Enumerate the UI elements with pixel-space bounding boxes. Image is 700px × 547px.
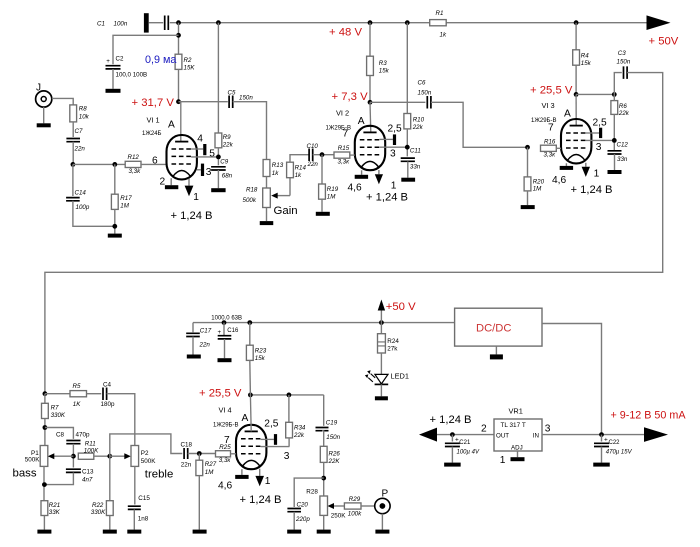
svg-text:500K: 500K bbox=[141, 458, 157, 465]
resistor R25 bbox=[216, 451, 231, 457]
wire R27 to ground bbox=[198, 476, 200, 530]
wire to +50V arrow bbox=[380, 311, 382, 323]
capacitor C9 68n bbox=[211, 167, 226, 170]
svg-text:C12: C12 bbox=[617, 141, 629, 148]
wire C22 to ground bbox=[601, 447, 603, 463]
ground below jack J bbox=[37, 123, 51, 127]
junction pin5/R9/C9 bbox=[216, 155, 221, 160]
svg-text:+ 1,24 В: + 1,24 В bbox=[171, 210, 213, 222]
svg-text:Gain: Gain bbox=[274, 205, 298, 217]
wire R6 to C12 bbox=[613, 114, 615, 150]
capacitor C7 22n bbox=[66, 139, 80, 142]
svg-text:C15: C15 bbox=[138, 495, 150, 502]
svg-text:C20: C20 bbox=[297, 502, 309, 509]
wire R16 to VI3 grid bbox=[556, 147, 561, 149]
svg-text:R28: R28 bbox=[306, 488, 318, 495]
wire rail to R4 bbox=[575, 23, 577, 50]
svg-text:C7: C7 bbox=[75, 128, 83, 135]
resistor R26 bbox=[320, 446, 327, 462]
DC/DC converter box bbox=[455, 308, 542, 346]
ground below R22 bbox=[103, 530, 117, 534]
svg-text:C22: C22 bbox=[609, 440, 621, 446]
svg-text:7: 7 bbox=[343, 128, 349, 139]
wiper arrow R18 bbox=[276, 195, 290, 197]
capacitor C2 100.0 100V electrolytic bbox=[106, 66, 121, 69]
junction R17 top bbox=[112, 162, 117, 167]
svg-text:22k: 22k bbox=[293, 432, 305, 439]
capacitor C10 22n bbox=[309, 148, 313, 161]
svg-text:C6: C6 bbox=[418, 79, 426, 86]
wire treble network to C18 bbox=[110, 434, 183, 456]
wire R18 to ground bbox=[266, 208, 268, 222]
resistor R19 bbox=[319, 184, 326, 199]
wire R12 to VI1 pin 6 bbox=[141, 163, 167, 165]
junction pin3 VI3 / R6 / C12 bbox=[612, 138, 617, 143]
svg-text:3: 3 bbox=[545, 423, 551, 434]
wire C2 to ground bbox=[112, 69, 114, 89]
svg-text:27k: 27k bbox=[387, 346, 398, 353]
svg-text:C9: C9 bbox=[220, 158, 228, 165]
wire LED1 to ground bbox=[380, 384, 382, 396]
wire C20 to ground bbox=[293, 512, 295, 530]
svg-text:R29: R29 bbox=[349, 496, 361, 503]
wire anode node VI2 to C6 bbox=[370, 101, 425, 103]
wire +48V rail right part bbox=[446, 22, 646, 24]
wire anode node to C5 bbox=[179, 101, 228, 103]
wire C9 to ground bbox=[217, 170, 219, 188]
svg-text:2,5: 2,5 bbox=[388, 124, 402, 135]
svg-text:OUT: OUT bbox=[496, 432, 509, 439]
ground below VI4 cathode bbox=[235, 475, 248, 479]
pin bar 2,5 of VI3 bbox=[599, 128, 602, 138]
svg-text:R10: R10 bbox=[413, 117, 425, 124]
junction top rail / R9 branch bbox=[216, 20, 221, 25]
svg-text:R24: R24 bbox=[387, 338, 399, 345]
ground below C21 bbox=[444, 463, 461, 467]
wire C16 to ground bbox=[224, 339, 226, 358]
svg-text:R21: R21 bbox=[49, 502, 60, 509]
svg-text:470µ 15V: 470µ 15V bbox=[606, 450, 633, 456]
wire R5 to C4 bbox=[87, 393, 102, 395]
wire P2 to C15 bbox=[134, 466, 136, 504]
svg-text:15k: 15k bbox=[581, 60, 592, 67]
svg-text:C8: C8 bbox=[56, 432, 65, 439]
arrow +9-12V input bbox=[644, 427, 668, 442]
ground below R18 bbox=[260, 221, 274, 225]
wire C6 to grid network VI3 bbox=[431, 102, 528, 147]
wire to R34 bbox=[288, 395, 290, 422]
svg-text:330K: 330K bbox=[91, 509, 106, 516]
svg-text:3,3к: 3,3к bbox=[219, 457, 232, 464]
svg-text:A: A bbox=[168, 120, 175, 131]
svg-text:6: 6 bbox=[152, 156, 158, 167]
ground below R28 bbox=[317, 530, 331, 534]
input jack J bbox=[36, 91, 52, 107]
ground below C17 bbox=[187, 355, 201, 359]
arrow pin 1 filament VI3 bbox=[582, 167, 590, 177]
svg-text:VI 3: VI 3 bbox=[542, 101, 555, 110]
wire C3 to tone stack (long feedback rail) bbox=[45, 73, 663, 394]
svg-text:C17: C17 bbox=[200, 328, 212, 335]
wire to R17 bbox=[114, 164, 116, 194]
wire R11 to P2 wiper line bbox=[94, 455, 110, 457]
junction C10/R19/R15 bbox=[320, 152, 325, 157]
wire R8 to C7 bbox=[72, 122, 74, 137]
svg-text:3: 3 bbox=[284, 451, 290, 462]
wire junction to R24 bbox=[380, 323, 382, 334]
svg-text:2,5: 2,5 bbox=[264, 418, 278, 429]
potentiometer P2 500K (treble) bbox=[131, 446, 139, 467]
resistor R4 bbox=[573, 50, 580, 65]
wire jack to R8 bbox=[52, 98, 73, 105]
svg-text:1M: 1M bbox=[327, 194, 336, 201]
junction C18 / R27 / R25 bbox=[197, 451, 202, 456]
resistor R15 bbox=[334, 152, 350, 158]
wire to R5 bbox=[45, 393, 70, 395]
output jack P bbox=[375, 498, 390, 513]
wire jack P to ground bbox=[381, 514, 383, 530]
arrow pin 1 filament VI2 bbox=[375, 174, 383, 184]
resistor R11 bbox=[78, 453, 94, 459]
svg-text:R8: R8 bbox=[79, 106, 87, 113]
wire +25,5V node to C19 bbox=[323, 395, 325, 426]
junction C22 / DC-DC output bbox=[599, 432, 604, 437]
wire R2 to anode node VI1 bbox=[178, 69, 180, 101]
capacitor C1 100n bbox=[165, 15, 169, 30]
wire C18 to R25 bbox=[188, 453, 216, 455]
svg-text:C1: C1 bbox=[97, 21, 105, 28]
svg-text:+: + bbox=[106, 58, 110, 65]
pin bar 3 of VI1 bbox=[201, 164, 204, 176]
svg-text:C5: C5 bbox=[228, 90, 236, 97]
svg-text:C3: C3 bbox=[618, 50, 626, 57]
svg-text:100µ 4V: 100µ 4V bbox=[457, 450, 480, 456]
svg-text:1k: 1k bbox=[272, 170, 279, 177]
junction tone stack top bbox=[43, 391, 48, 396]
wire junction to R6 bbox=[613, 94, 615, 100]
svg-text:R26: R26 bbox=[329, 450, 341, 457]
wire rail to R3 bbox=[369, 23, 371, 57]
wire R10 to C11 bbox=[406, 129, 408, 157]
arrow pin 1 filament VI1 bbox=[185, 186, 194, 197]
svg-text:R23: R23 bbox=[255, 348, 267, 355]
junction R23 bbox=[247, 320, 252, 325]
svg-text:R12: R12 bbox=[128, 154, 140, 161]
resistor R8 bbox=[70, 105, 77, 122]
ground below VR1 ADJ bbox=[511, 457, 525, 461]
node anode VI3 +25,5V bbox=[574, 92, 579, 97]
svg-text:R2: R2 bbox=[184, 57, 192, 64]
wire C15 to ground bbox=[133, 510, 135, 530]
svg-text:R25: R25 bbox=[219, 444, 231, 451]
svg-text:500k: 500k bbox=[243, 197, 257, 204]
svg-text:+ 9-12 В 50 mA: + 9-12 В 50 mA bbox=[611, 409, 687, 421]
junction top rail / R4 branch bbox=[574, 20, 579, 25]
svg-text:+ 1,24 В: + 1,24 В bbox=[240, 494, 282, 506]
wire junction to C8 bbox=[45, 428, 74, 439]
wire R3 to anode node VI2 bbox=[369, 76, 371, 103]
svg-text:C19: C19 bbox=[326, 419, 338, 426]
resistor R17 bbox=[111, 194, 118, 209]
svg-text:1000.0 63В: 1000.0 63В bbox=[211, 316, 242, 322]
node anode VI1 +31,7V bbox=[176, 99, 181, 104]
wire to C17 bbox=[192, 323, 194, 333]
svg-text:3: 3 bbox=[596, 142, 602, 153]
wire anode lead VI4 bbox=[249, 395, 252, 432]
resistor R2 bbox=[175, 54, 182, 69]
svg-text:C4: C4 bbox=[103, 382, 112, 389]
wire R24 to LED1 bbox=[380, 353, 382, 374]
svg-text:2,5: 2,5 bbox=[593, 118, 607, 129]
wire rail to R10 bbox=[406, 23, 408, 114]
node anode VI4 +25,5V bbox=[248, 393, 253, 398]
svg-text:1M: 1M bbox=[205, 469, 214, 476]
potentiometer R28 250K bbox=[320, 496, 328, 515]
wiper arrow R28 bbox=[333, 505, 345, 507]
wire C7 to grid node bbox=[72, 142, 74, 165]
capacitor C11 33n bbox=[401, 158, 415, 161]
svg-text:R17: R17 bbox=[120, 195, 132, 202]
wire VI1 pin1 filament bbox=[188, 179, 190, 186]
ground below C16 bbox=[218, 358, 232, 362]
svg-text:C14: C14 bbox=[75, 190, 87, 197]
wire jack to ground bbox=[43, 107, 45, 123]
wire junction up to C3 bbox=[614, 73, 622, 95]
svg-text:4n7: 4n7 bbox=[82, 477, 93, 484]
pin bar 2,5 of VI2 bbox=[393, 134, 396, 145]
wire anode node to R6/C3 bbox=[576, 93, 614, 95]
svg-text:R7: R7 bbox=[51, 405, 59, 412]
wire +25,5V node stage4 bbox=[250, 394, 323, 396]
svg-text:ADJ: ADJ bbox=[511, 444, 523, 451]
svg-text:180p: 180p bbox=[101, 401, 116, 408]
resistor R3 bbox=[367, 56, 374, 75]
svg-text:3,3к: 3,3к bbox=[544, 152, 557, 159]
wire junction to R20 bbox=[527, 147, 529, 177]
wire VI1 to R9/C9 junction bbox=[191, 156, 218, 158]
wire R21 to ground bbox=[43, 516, 45, 530]
wire junction to R27 bbox=[198, 454, 200, 461]
ground below C11 bbox=[401, 178, 415, 182]
ground below C20 bbox=[287, 530, 301, 534]
resistor R21 bbox=[41, 501, 48, 516]
junction C16 bbox=[222, 320, 227, 325]
svg-text:+ 50V: + 50V bbox=[649, 36, 679, 48]
svg-text:150n: 150n bbox=[418, 90, 432, 97]
junction R6 / C3 bbox=[612, 92, 617, 97]
junction C2 tap bbox=[176, 33, 181, 38]
ground below LED1 bbox=[375, 396, 388, 400]
ground below jack P bbox=[375, 530, 389, 534]
wire VI4 pin1 filament bbox=[259, 469, 261, 476]
wire VI3 pin1 filament bbox=[585, 163, 587, 167]
resistor R5 bbox=[70, 391, 87, 397]
tube VI1 1Ж24Б bbox=[167, 135, 197, 179]
svg-text:1: 1 bbox=[193, 192, 199, 203]
svg-text:C10: C10 bbox=[307, 143, 319, 150]
svg-text:R13: R13 bbox=[272, 162, 284, 169]
resistor R13 bbox=[263, 160, 270, 177]
svg-text:2: 2 bbox=[160, 177, 166, 188]
junction wiper line / C8 / C13 bbox=[71, 454, 76, 459]
svg-text:R14: R14 bbox=[295, 165, 307, 172]
arrow +50V supply output bbox=[647, 15, 671, 30]
svg-text:R9: R9 bbox=[223, 134, 231, 141]
junction pin3 VI2 / R10 / C11 bbox=[405, 145, 410, 150]
svg-text:33n: 33n bbox=[617, 156, 628, 163]
svg-text:A: A bbox=[358, 116, 365, 127]
svg-text:R15: R15 bbox=[338, 145, 350, 152]
svg-text:15k: 15k bbox=[255, 355, 266, 362]
svg-text:150n: 150n bbox=[617, 58, 631, 65]
wire C10 to R15 bbox=[313, 154, 334, 156]
wire C17 to ground bbox=[192, 337, 194, 355]
tube VI2 1Ж29Б-В bbox=[355, 126, 385, 170]
svg-text:+ 48 V: + 48 V bbox=[329, 27, 362, 39]
pin bar 2,5 of VI4 bbox=[274, 434, 277, 445]
junction +50V arrow / R24 bbox=[379, 320, 384, 325]
svg-text:VI 4: VI 4 bbox=[219, 406, 232, 415]
resistor R23 bbox=[246, 345, 253, 360]
junction top rail / R2 branch bbox=[176, 20, 181, 25]
svg-text:33K: 33K bbox=[49, 509, 61, 516]
svg-text:15k: 15k bbox=[379, 68, 390, 75]
svg-text:+: + bbox=[218, 329, 222, 336]
ground below R21 bbox=[37, 530, 51, 534]
svg-text:4,6: 4,6 bbox=[552, 175, 566, 186]
wire VR1 ADJ to ground bbox=[517, 451, 519, 457]
voltage regulator VR1 TL317 box bbox=[494, 419, 542, 451]
svg-text:22k: 22k bbox=[222, 142, 234, 149]
arrow pin 1 filament VI4 bbox=[255, 476, 264, 486]
junction R26 / C20 / R28 bbox=[321, 476, 326, 481]
wire +48V rail left part bbox=[170, 22, 430, 24]
capacitor C3 150n bbox=[624, 66, 628, 79]
wire anode lead VI1 bbox=[179, 102, 181, 142]
wire +50V distribution rail bbox=[193, 322, 455, 324]
junction R11 / R22 / C18 branch bbox=[107, 454, 112, 459]
junction top rail / R10 branch bbox=[405, 20, 410, 25]
wire to R23 bbox=[249, 323, 251, 346]
wire R28 to ground bbox=[323, 515, 325, 529]
svg-text:500K: 500K bbox=[25, 457, 41, 464]
LED LED1 bbox=[375, 374, 388, 384]
svg-text:100p: 100p bbox=[76, 204, 90, 211]
svg-text:VR1: VR1 bbox=[509, 407, 523, 416]
capacitor C16 1000u electrolytic bbox=[218, 336, 232, 339]
svg-text:1: 1 bbox=[391, 181, 397, 192]
junction R20 / R16 bbox=[525, 145, 530, 150]
wire rail to R9 bbox=[217, 23, 219, 133]
wire C19 to R26 bbox=[322, 431, 324, 447]
svg-text:R5: R5 bbox=[73, 383, 81, 390]
svg-text:68n: 68n bbox=[222, 173, 233, 180]
wire R4 to anode node VI3 bbox=[575, 65, 577, 94]
junction R7 / C8 branch bbox=[43, 425, 48, 430]
wire wiper to R14 bbox=[289, 178, 291, 196]
svg-text:15K: 15K bbox=[184, 65, 196, 72]
svg-text:4: 4 bbox=[197, 134, 203, 145]
svg-text:1: 1 bbox=[594, 169, 600, 180]
svg-text:22k: 22k bbox=[618, 110, 630, 117]
svg-text:VI 2: VI 2 bbox=[336, 109, 349, 118]
wire C1 plate to C1 bbox=[149, 22, 164, 24]
svg-text:VI 1: VI 1 bbox=[147, 116, 160, 125]
svg-text:C11: C11 bbox=[410, 148, 421, 155]
svg-text:R22: R22 bbox=[92, 502, 104, 509]
wiper arrow P1 bbox=[53, 455, 74, 457]
tube VI3 1Ж29Б-В bbox=[561, 119, 591, 163]
potentiometer R18 500k (gain) bbox=[263, 188, 271, 208]
svg-text:5: 5 bbox=[209, 149, 215, 160]
svg-text:22n: 22n bbox=[74, 146, 86, 153]
wire R9 to C9 bbox=[217, 148, 219, 166]
svg-text:C18: C18 bbox=[181, 442, 193, 449]
svg-text:1M: 1M bbox=[533, 186, 542, 193]
wire P1 to R21 bbox=[43, 466, 45, 500]
resistor R14 bbox=[287, 162, 294, 178]
wire to C2 bbox=[113, 35, 179, 64]
svg-text:C16: C16 bbox=[227, 328, 239, 334]
wire R25 to VI4 grid bbox=[231, 453, 237, 455]
capacitor C8 470p bbox=[66, 441, 80, 444]
wire R17 to ground bbox=[114, 209, 116, 233]
svg-text:A: A bbox=[564, 109, 571, 120]
svg-text:+ 25,5 V: + 25,5 V bbox=[199, 387, 242, 399]
capacitor C21 100u electrolytic bbox=[445, 443, 460, 446]
ground below VI3 cathode bbox=[560, 166, 573, 170]
svg-text:22k: 22k bbox=[412, 124, 424, 131]
junction P1 bottom / C13 return bbox=[42, 482, 47, 487]
node anode VI2 +7,3V bbox=[368, 100, 373, 105]
arrow +50V supply bbox=[378, 300, 385, 311]
svg-text:R6: R6 bbox=[619, 103, 627, 110]
ground below C15 bbox=[127, 530, 141, 534]
wire VI4 to pin bar 2,5 bbox=[261, 438, 274, 440]
svg-text:1K: 1K bbox=[73, 401, 81, 408]
wire C13 return to P1 bottom bbox=[45, 473, 74, 485]
svg-text:R20: R20 bbox=[533, 179, 545, 186]
resistor R29 bbox=[344, 503, 361, 509]
wire C5 to R13 bbox=[233, 102, 267, 160]
wire VI4 pin3 to R34 bbox=[261, 446, 290, 448]
svg-text:R27: R27 bbox=[205, 461, 217, 468]
svg-text:+ 25,5 V: + 25,5 V bbox=[530, 85, 573, 97]
svg-text:100K: 100K bbox=[84, 447, 99, 454]
svg-text:+ 1,24 В: + 1,24 В bbox=[430, 414, 472, 426]
svg-text:IN: IN bbox=[533, 432, 539, 439]
capacitor C14 100p bbox=[66, 198, 80, 201]
capacitor C13 4n7 bbox=[66, 469, 81, 472]
junction R34 top bbox=[287, 393, 292, 398]
capacitor C22 470u electrolytic bbox=[594, 443, 609, 446]
wire to C14 bbox=[72, 164, 74, 196]
wire anode lead VI3 bbox=[575, 94, 577, 125]
wire C11 to ground bbox=[407, 161, 409, 177]
svg-text:22K: 22K bbox=[328, 458, 341, 465]
wire C12 to ground bbox=[614, 154, 616, 170]
wire C21 to ground bbox=[451, 447, 453, 463]
wiper arrow P2 bbox=[110, 455, 126, 457]
wire VI1 to pin bar 3 bbox=[197, 169, 201, 171]
wire VI3 cathode to ground bbox=[565, 163, 567, 166]
capacitor C18 22n bbox=[184, 448, 188, 459]
wire VI2 cathode to ground bbox=[361, 170, 363, 175]
arrow +1,24V output bbox=[419, 428, 437, 442]
potentiometer P1 500K (bass) bbox=[40, 446, 48, 467]
pin bar 4/5 of VI1 bbox=[203, 144, 206, 155]
resistor R16 bbox=[541, 145, 557, 151]
